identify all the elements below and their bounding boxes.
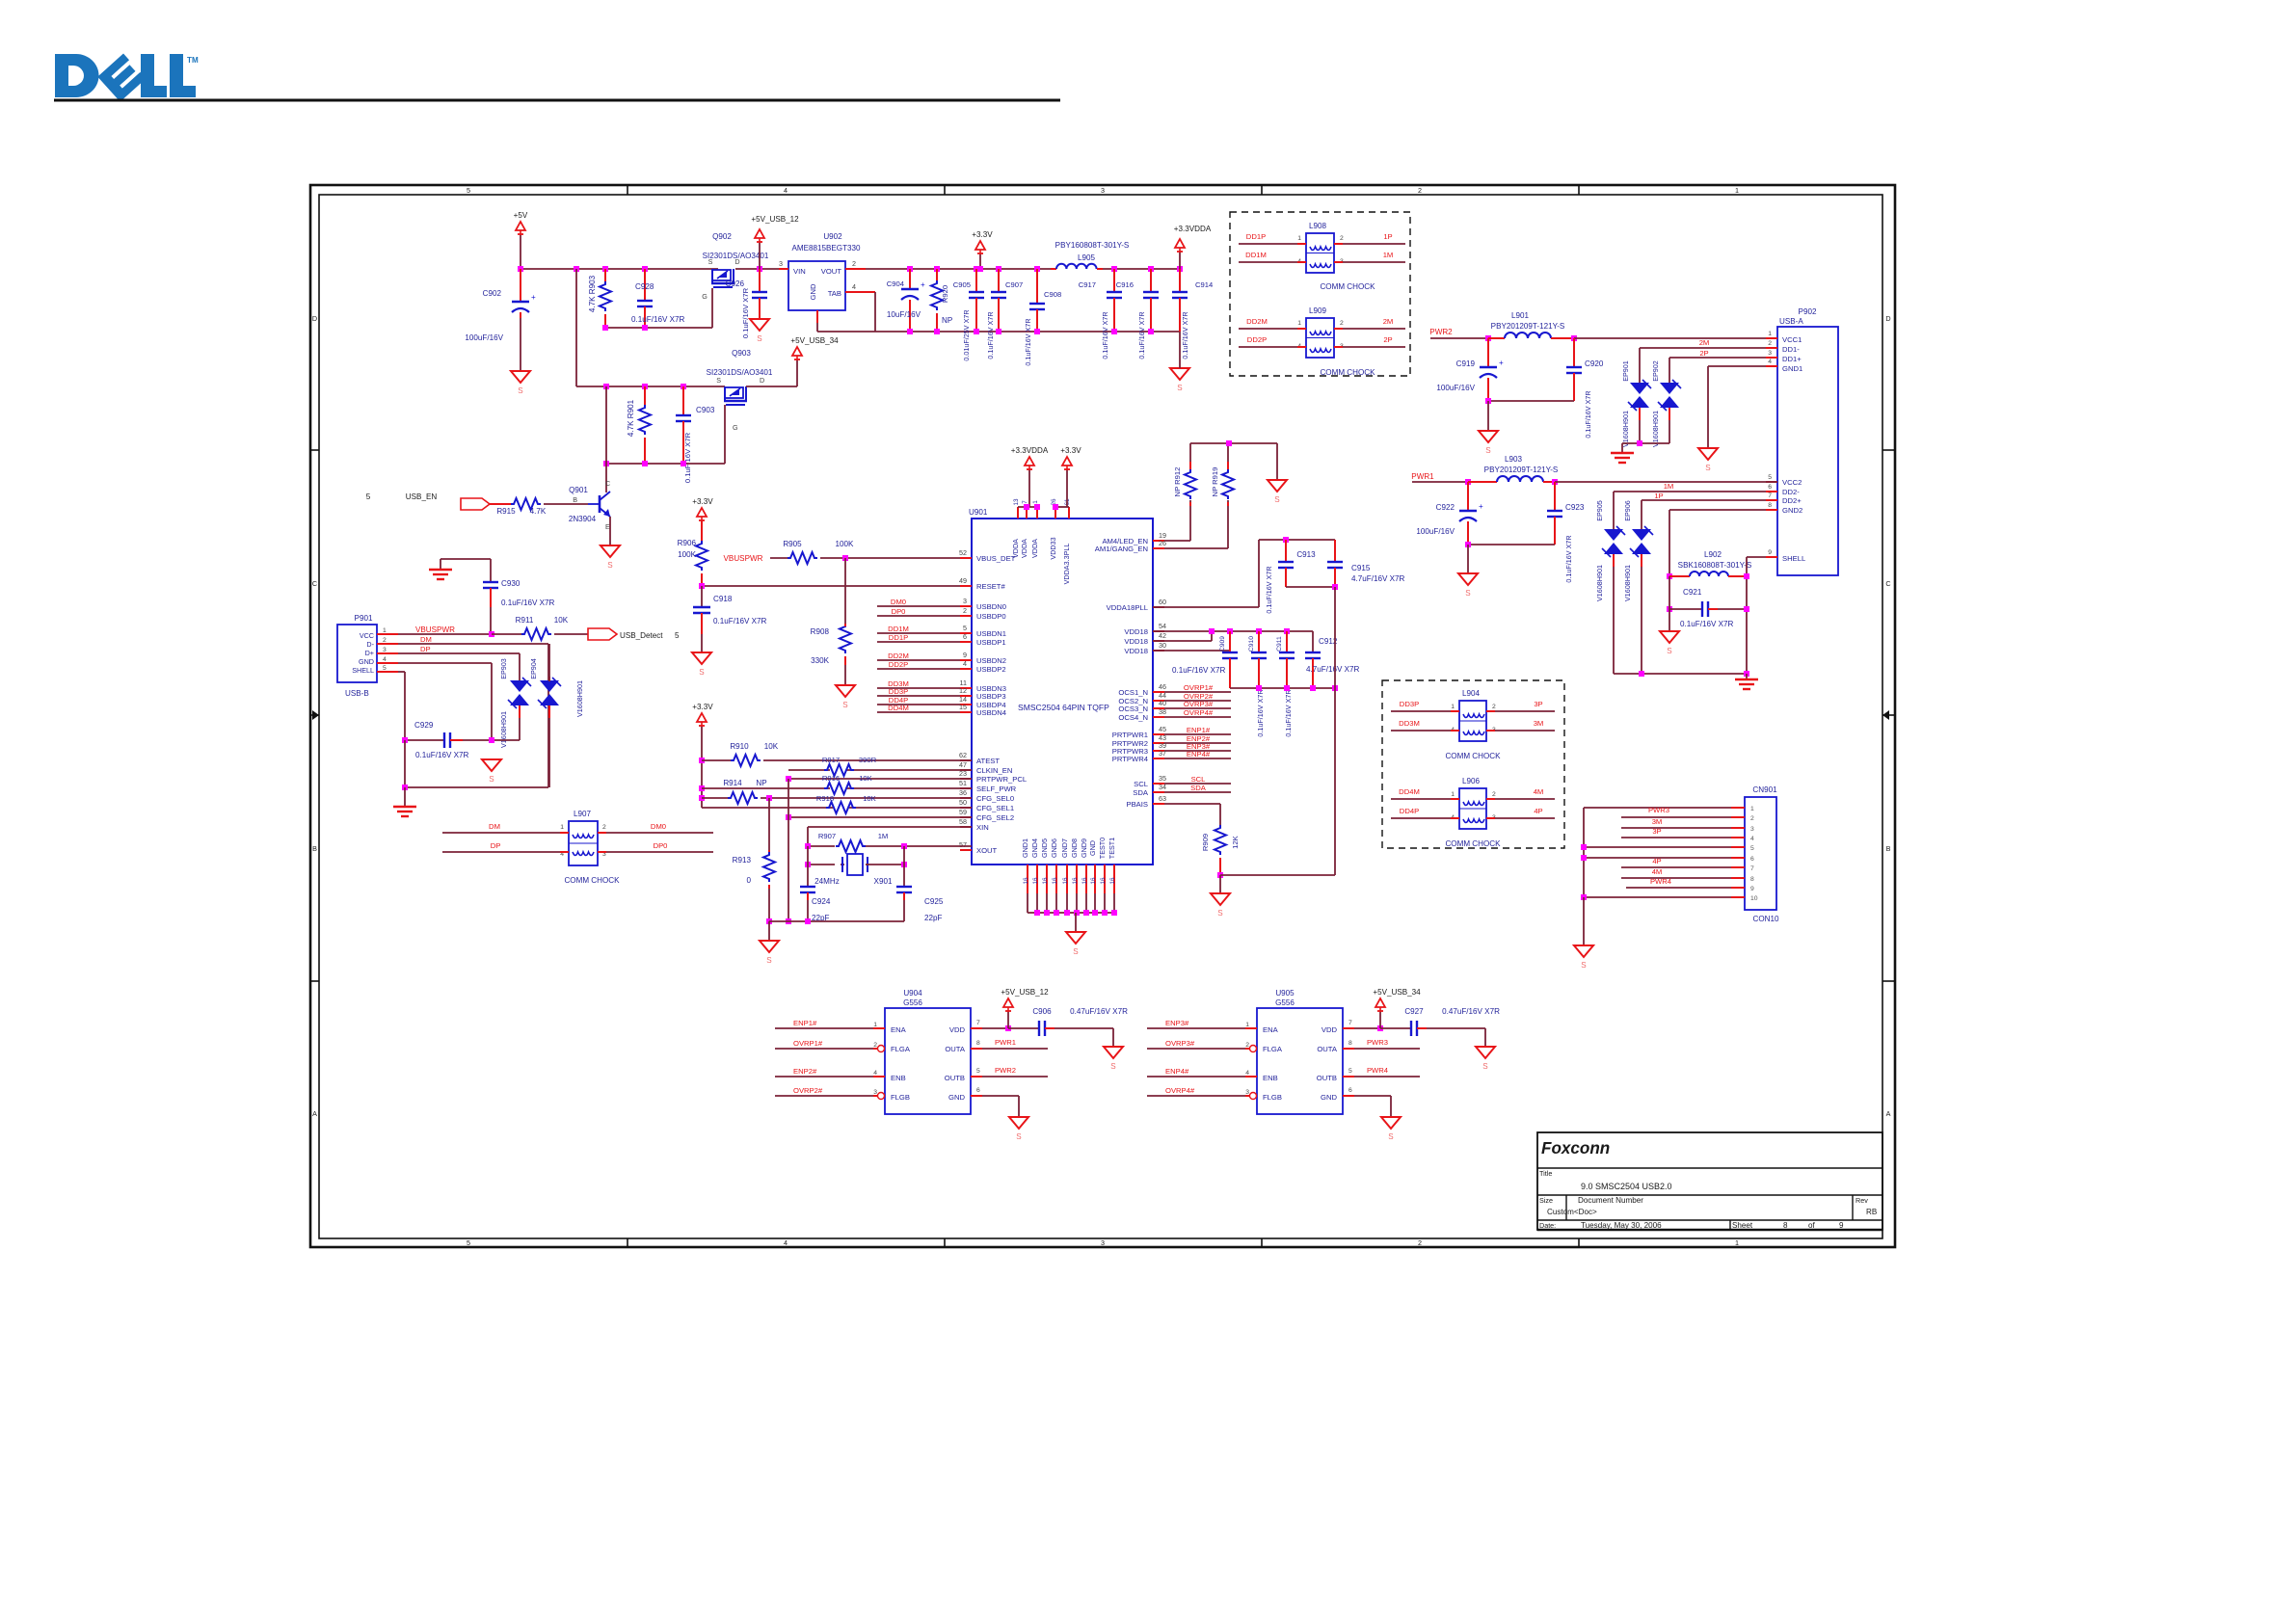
svg-text:CFG_SEL1: CFG_SEL1 (976, 804, 1014, 812)
wire C919 C920 bottom (1485, 398, 1574, 404)
svg-text:1: 1 (1451, 791, 1455, 798)
svg-text:OCS4_N: OCS4_N (1118, 713, 1148, 722)
wire OVRP4# into U905 (1147, 1086, 1257, 1100)
svg-text:EP904: EP904 (529, 658, 538, 679)
svg-text:C919: C919 (1456, 359, 1476, 368)
junction (699, 758, 705, 763)
svg-text:2N3904: 2N3904 (569, 515, 597, 523)
inductor L902 SBK160808T-301Y-S (1669, 550, 1752, 576)
svg-text:0.1uF/16V X7R: 0.1uF/16V X7R (683, 432, 692, 483)
junction (574, 266, 579, 272)
svg-text:PWR2: PWR2 (995, 1066, 1016, 1075)
IC U905 G556 (1257, 989, 1343, 1114)
svg-text:0.47uF/16V X7R: 0.47uF/16V X7R (1442, 1007, 1500, 1016)
svg-text:S: S (1274, 495, 1280, 504)
wire USB-A ground bus (1614, 671, 1749, 677)
svg-text:C: C (605, 479, 610, 488)
svg-text:D-: D- (366, 640, 374, 649)
junction (974, 329, 979, 334)
inductor L903 PBY201209T-121Y-S (1468, 455, 1559, 482)
capacitor C916 (1116, 269, 1159, 359)
svg-text:G556: G556 (903, 998, 922, 1007)
svg-text:2: 2 (383, 637, 387, 644)
svg-text:SDA: SDA (1190, 784, 1207, 792)
svg-text:DD2-: DD2- (1782, 488, 1800, 496)
svg-text:D+: D+ (365, 649, 374, 657)
wire USB_EN to R915 (490, 503, 512, 505)
svg-text:9: 9 (963, 651, 967, 659)
wire DD1- 2M (1640, 338, 1766, 383)
svg-text:7: 7 (1750, 865, 1754, 872)
U901 pin 59 CFG_SEL2 (959, 808, 1014, 822)
wire PRTPWR_PCL line (788, 778, 972, 780)
svg-text:3P: 3P (1534, 700, 1542, 708)
svg-text:C922: C922 (1436, 503, 1455, 512)
svg-text:Tuesday, May 30, 2006: Tuesday, May 30, 2006 (1581, 1221, 1662, 1230)
svg-text:GND6: GND6 (1050, 838, 1058, 858)
svg-text:2: 2 (963, 606, 967, 615)
svg-text:Sheet: Sheet (1732, 1221, 1753, 1230)
svg-text:USBDN0: USBDN0 (976, 602, 1006, 611)
svg-text:2: 2 (1492, 704, 1496, 710)
svg-text:16: 16 (1032, 877, 1039, 885)
wire GND1 drop (1708, 366, 1766, 447)
resistor R920 NP (931, 269, 952, 332)
U901 pin 50 CFG_SEL1 (959, 798, 1014, 812)
svg-text:+3.3V: +3.3V (972, 230, 993, 239)
svg-text:TM: TM (187, 56, 199, 65)
svg-text:VBUS_DET: VBUS_DET (976, 554, 1016, 563)
junction (1177, 266, 1183, 272)
U901 pin 63 PBAIS (1126, 794, 1166, 809)
pin stub VIN (779, 268, 788, 270)
svg-text:S: S (708, 257, 713, 266)
svg-text:DD2P: DD2P (889, 660, 908, 669)
U901 pin 35 SCL (1134, 774, 1231, 788)
svg-text:2: 2 (852, 259, 856, 268)
svg-text:P901: P901 (355, 614, 373, 623)
junction (642, 266, 648, 272)
capacitor C922 (1416, 482, 1483, 545)
svg-text:1P: 1P (1654, 492, 1663, 500)
svg-text:VBUSPWR: VBUSPWR (724, 554, 763, 563)
power flag +3.3V (972, 230, 993, 254)
U901 pin 62 ATEST (959, 751, 1000, 765)
svg-text:PWR4: PWR4 (1650, 877, 1672, 886)
wire flag to bus (759, 243, 761, 269)
svg-text:GND1: GND1 (1021, 838, 1029, 858)
wire +3.3V to rail (977, 254, 983, 272)
svg-text:0.1uF/16V X7R: 0.1uF/16V X7R (1256, 689, 1265, 736)
svg-text:3: 3 (1768, 350, 1772, 357)
svg-text:V1608H901: V1608H901 (499, 711, 508, 748)
wire DD1+ 2P (1669, 349, 1766, 383)
sheet inner border (319, 195, 1882, 1238)
junction (1034, 266, 1040, 272)
svg-text:8: 8 (1348, 1040, 1352, 1047)
svg-text:+3.3VDDA: +3.3VDDA (1174, 225, 1212, 233)
TVS EP903 V1608H901 (499, 658, 531, 748)
wire ENP2# into U904 (775, 1067, 885, 1077)
svg-text:51: 51 (959, 779, 967, 787)
svg-text:PRTPWR1: PRTPWR1 (1112, 731, 1148, 739)
ground (429, 570, 452, 579)
wire VDDA group to +3.3VDDA (1018, 468, 1040, 510)
U901 pin 60 VDDA18PLL (1107, 598, 1166, 612)
svg-text:3M: 3M (1652, 817, 1663, 826)
wire R909 bottom to right vertical (1220, 874, 1335, 876)
wire SHELL drop (1744, 557, 1766, 674)
svg-text:OVRP3#: OVRP3# (1165, 1039, 1195, 1048)
svg-text:10K: 10K (859, 774, 872, 783)
junction (402, 737, 408, 743)
svg-text:V1608H901: V1608H901 (1623, 565, 1632, 601)
svg-text:L908: L908 (1309, 222, 1327, 230)
svg-text:12K: 12K (1231, 835, 1240, 848)
wire Q903 D (746, 386, 797, 387)
svg-text:1: 1 (1297, 235, 1301, 242)
U901 pin 47 CLKIN_EN (959, 760, 1012, 775)
svg-text:DM: DM (489, 822, 500, 831)
svg-text:S: S (1485, 446, 1491, 455)
capacitor C909 (1219, 631, 1238, 688)
svg-text:R917: R917 (822, 756, 840, 764)
svg-text:C910: C910 (1248, 636, 1255, 652)
wire VOUT rail (866, 268, 1056, 270)
inductor L901 PBY201209T-121Y-S (1488, 311, 1574, 338)
svg-text:50: 50 (959, 798, 967, 807)
power flag +5V_USB_34 (790, 336, 839, 360)
junction (1227, 628, 1233, 634)
junction (602, 325, 608, 331)
junction (805, 843, 811, 849)
wire CN901 pin8 4M (1621, 867, 1731, 878)
wire CN901 pin6 (1584, 857, 1731, 859)
wire R911 to USB_Detect (554, 633, 588, 635)
svg-text:OUTA: OUTA (945, 1045, 966, 1053)
svg-text:C903: C903 (696, 406, 715, 414)
wire pin19 to R912 (1164, 540, 1190, 542)
resistor R901 (627, 386, 651, 464)
junction (1209, 628, 1215, 634)
wire GND2 to L902 (1669, 510, 1766, 576)
svg-text:USB-B: USB-B (345, 689, 369, 698)
svg-text:DM: DM (420, 635, 432, 644)
svg-text:40: 40 (1159, 699, 1166, 707)
svg-text:C928: C928 (635, 282, 654, 291)
svg-text:1: 1 (1032, 500, 1039, 504)
svg-text:1: 1 (560, 824, 564, 831)
svg-text:390R: 390R (859, 756, 877, 764)
svg-text:DM0: DM0 (891, 598, 906, 606)
U901 pin 9 USBDN2 (877, 651, 1006, 665)
svg-text:DD3M: DD3M (1399, 719, 1420, 728)
wire OVRP2# into U904 (775, 1086, 885, 1100)
wire VCC2 line (1555, 481, 1777, 483)
svg-text:SBK160808T-301Y-S: SBK160808T-301Y-S (1678, 561, 1752, 570)
svg-text:2M: 2M (1699, 338, 1710, 347)
junction (907, 329, 913, 334)
svg-text:2: 2 (873, 1042, 877, 1049)
svg-text:2: 2 (1768, 340, 1772, 347)
choke L906 COMM CHOCK (1445, 777, 1501, 848)
ground (1066, 932, 1085, 956)
junction (1111, 266, 1117, 272)
svg-text:4M: 4M (1652, 867, 1663, 876)
wire GND bus drop (1075, 913, 1077, 931)
capacitor C903 (676, 386, 715, 483)
svg-text:2: 2 (602, 824, 606, 831)
svg-text:S: S (766, 956, 772, 965)
svg-text:of: of (1808, 1221, 1816, 1230)
wire CN901 pin10 (1584, 896, 1731, 898)
wire CN901 ground drop (1583, 897, 1585, 945)
wire VDD33 group to +3.3V (1053, 468, 1069, 510)
svg-text:PBY201209T-121Y-S: PBY201209T-121Y-S (1491, 322, 1565, 331)
svg-text:ENB: ENB (1263, 1074, 1278, 1082)
junction (1148, 329, 1154, 334)
dashed group box downstream chokes (1382, 680, 1564, 848)
wire 3M out of L904 (1486, 719, 1555, 731)
U901 pin 30 VDD18 (1124, 641, 1166, 655)
svg-text:0.01uF/25V X7R: 0.01uF/25V X7R (962, 309, 971, 360)
svg-text:PBY201209T-121Y-S: PBY201209T-121Y-S (1484, 466, 1559, 474)
junction (1256, 628, 1262, 634)
svg-text:C917: C917 (1079, 280, 1096, 289)
svg-text:NP: NP (756, 779, 766, 787)
capacitor C905 (953, 269, 984, 361)
wire bus2 to Q901 collector (605, 386, 607, 492)
wire gate Q902 (711, 288, 713, 328)
TVS EP901 V1608H901 (1621, 360, 1651, 447)
svg-text:CFG_SEL2: CFG_SEL2 (976, 813, 1014, 822)
resistor R908 330K (811, 624, 851, 665)
svg-text:1: 1 (873, 1022, 877, 1028)
wire +3.3V strap vertical (701, 727, 703, 808)
choke L908 COMM CHOCK (1297, 222, 1375, 291)
net VBUSPWR label (724, 554, 763, 563)
net DM wire (398, 635, 548, 787)
svg-text:VDDA: VDDA (1011, 539, 1020, 558)
wire 4P out of L906 (1486, 807, 1555, 818)
wire DD3M into L904 (1391, 719, 1459, 731)
svg-text:U904: U904 (903, 989, 922, 998)
svg-text:63: 63 (1159, 794, 1166, 803)
U901 pin 46 OCS1_N (1118, 682, 1231, 697)
wire R908 drop (844, 558, 846, 626)
U901 pin 12 USBDP3 (877, 686, 1006, 701)
svg-text:RESET#: RESET# (976, 582, 1005, 591)
wire GND of U905 (1343, 1087, 1391, 1116)
svg-text:+5V_USB_12: +5V_USB_12 (751, 215, 799, 224)
capacitor C914 (1172, 269, 1214, 359)
svg-text:4: 4 (852, 282, 856, 291)
svg-text:USB_EN: USB_EN (406, 492, 438, 501)
junction (786, 776, 791, 782)
capacitor C908 (1024, 269, 1061, 366)
svg-text:AM1/GANG_EN: AM1/GANG_EN (1095, 545, 1148, 553)
svg-text:PWR4: PWR4 (1367, 1066, 1389, 1075)
svg-text:C925: C925 (924, 897, 944, 906)
wire DD1M into L908 (1239, 251, 1306, 262)
svg-text:S: S (716, 376, 721, 385)
net VBUSPWR (398, 625, 492, 634)
svg-text:USBDP2: USBDP2 (976, 665, 1006, 674)
svg-text:9: 9 (1768, 549, 1772, 556)
wire VDDA18PLL (972, 540, 1335, 607)
svg-text:16: 16 (1052, 877, 1058, 885)
svg-text:Foxconn: Foxconn (1541, 1139, 1610, 1157)
resistor R906 100K (678, 521, 707, 586)
junction (642, 325, 648, 331)
junction (642, 461, 648, 466)
wire C909 drop (1229, 650, 1231, 652)
U901 pin 58 XIN (959, 817, 989, 832)
U901 pin 45 PRTPWR1 (1112, 725, 1231, 739)
capacitor C902 (465, 269, 536, 370)
junction (805, 918, 811, 924)
svg-text:C904: C904 (887, 279, 905, 288)
svg-text:1: 1 (383, 627, 387, 634)
svg-text:SMSC2504 64PIN TQFP: SMSC2504 64PIN TQFP (1018, 703, 1109, 712)
wire CN901 pin7 4P (1621, 857, 1731, 867)
junction (603, 461, 609, 466)
svg-text:B: B (573, 495, 577, 504)
U901 pin 36 CFG_SEL0 (959, 788, 1014, 803)
resistor R905 100K (783, 540, 854, 564)
ground (1170, 368, 1189, 392)
svg-text:VDDA18PLL: VDDA18PLL (1107, 603, 1148, 612)
svg-text:D: D (734, 257, 739, 266)
capacitor C919 (1436, 338, 1504, 401)
svg-text:COMM CHOCK: COMM CHOCK (564, 876, 620, 885)
svg-text:4: 4 (873, 1070, 877, 1077)
power flag +3.3VDDA (1011, 446, 1049, 470)
capacitor C929 (405, 721, 492, 759)
svg-text:DD2P: DD2P (1247, 335, 1267, 344)
junction (1283, 537, 1289, 543)
svg-text:R913: R913 (733, 856, 752, 865)
svg-text:R911: R911 (516, 616, 534, 625)
ground (1211, 893, 1230, 918)
svg-text:5: 5 (675, 631, 680, 640)
svg-text:1P: 1P (1383, 232, 1392, 241)
resistor R912 NP (1173, 462, 1196, 541)
junction (786, 918, 791, 924)
junction (786, 814, 791, 820)
svg-text:GND4: GND4 (1030, 838, 1039, 858)
junction (901, 862, 907, 867)
svg-text:USB-A: USB-A (1779, 317, 1803, 326)
svg-text:D: D (312, 314, 317, 323)
capacitor C912 (1305, 631, 1359, 688)
wire L905 to +3.3VDDA rail (1103, 268, 1180, 270)
svg-text:58: 58 (959, 817, 967, 826)
capacitor C924 (800, 887, 831, 922)
wire CN901 pin4 3P (1621, 827, 1731, 838)
wire DM into L907 (442, 822, 569, 833)
svg-text:7: 7 (1022, 500, 1028, 504)
ground (1268, 480, 1287, 504)
svg-text:330K: 330K (811, 656, 830, 665)
resistor R918 10K (816, 794, 877, 813)
svg-text:3: 3 (1101, 1238, 1105, 1247)
svg-text:Title: Title (1539, 1169, 1552, 1178)
transistor Q902 SI2301DS/AO3401 (702, 232, 769, 301)
svg-text:EP901: EP901 (1621, 360, 1630, 382)
U901 pin 2 USBDP0 (877, 606, 1006, 621)
svg-text:C907: C907 (1005, 280, 1023, 289)
svg-text:S: S (1482, 1062, 1488, 1071)
svg-text:57: 57 (959, 840, 967, 849)
svg-text:FLGA: FLGA (1263, 1045, 1283, 1053)
ground (750, 319, 769, 343)
wire PBAIS to R909 (1164, 804, 1220, 825)
svg-text:L909: L909 (1309, 306, 1327, 315)
svg-text:+3.3VDDA: +3.3VDDA (1011, 446, 1049, 455)
wire DD2+ 1P (1642, 492, 1766, 529)
ground (1611, 443, 1634, 463)
svg-text:38: 38 (1159, 707, 1166, 716)
svg-text:OVRP4#: OVRP4# (1165, 1086, 1195, 1095)
svg-text:PRTPWR4: PRTPWR4 (1112, 755, 1149, 763)
svg-text:C908: C908 (1044, 290, 1061, 299)
wire 1P out of L908 (1334, 232, 1405, 244)
svg-text:0.1uF/16V X7R: 0.1uF/16V X7R (1137, 311, 1146, 359)
svg-text:4P: 4P (1652, 857, 1661, 865)
junction (642, 384, 648, 389)
svg-text:1: 1 (1297, 320, 1301, 327)
wire VDD of U905 (1343, 1020, 1383, 1031)
svg-text:XOUT: XOUT (976, 846, 998, 855)
svg-text:D: D (1885, 314, 1890, 323)
svg-text:DD1P: DD1P (1246, 232, 1266, 241)
junction (402, 785, 408, 790)
svg-text:0.1uF/16V X7R: 0.1uF/16V X7R (1101, 311, 1109, 359)
svg-text:S: S (842, 701, 848, 709)
svg-text:16: 16 (1042, 877, 1049, 885)
wire R915 to base (544, 503, 588, 505)
junction (1034, 329, 1040, 334)
svg-text:+: + (921, 280, 925, 289)
svg-text:R910: R910 (730, 742, 749, 751)
svg-text:1: 1 (1735, 1238, 1739, 1247)
svg-text:54: 54 (1159, 622, 1166, 630)
svg-text:0.1uF/16V X7R: 0.1uF/16V X7R (1680, 620, 1733, 628)
pin stubs P902 upper (1766, 331, 1777, 557)
svg-text:12: 12 (959, 686, 967, 695)
svg-text:C905: C905 (953, 280, 971, 289)
wire ENP1# into U904 (775, 1019, 885, 1028)
svg-text:3M: 3M (1534, 719, 1544, 728)
capacitor C928 (631, 269, 684, 328)
wire CN901 pin3 3M (1621, 817, 1731, 828)
wire SHELL pin down (398, 672, 405, 740)
svg-text:FLGB: FLGB (1263, 1093, 1282, 1102)
svg-text:CON10: CON10 (1753, 915, 1779, 923)
wire TVS bottoms (1622, 408, 1669, 446)
svg-text:8: 8 (1768, 502, 1772, 509)
svg-text:4: 4 (1750, 836, 1754, 842)
svg-text:DD2+: DD2+ (1782, 496, 1802, 505)
svg-text:ENP1#: ENP1# (793, 1019, 817, 1027)
junction (681, 461, 686, 466)
svg-text:R914: R914 (723, 779, 742, 787)
svg-text:VDD18: VDD18 (1124, 637, 1148, 646)
svg-text:C911: C911 (1276, 636, 1283, 652)
svg-text:7: 7 (1348, 1020, 1352, 1026)
svg-text:1M: 1M (1383, 251, 1394, 259)
